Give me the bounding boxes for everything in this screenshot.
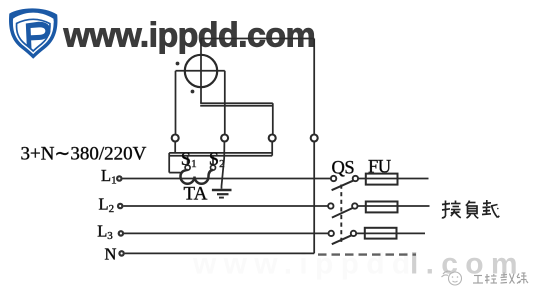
svg-text:TA: TA <box>184 184 208 205</box>
svg-text:L3: L3 <box>97 222 113 242</box>
svg-text:QS: QS <box>332 159 355 179</box>
svg-text:www.ippdd.com: www.ippdd.com <box>63 17 316 55</box>
svg-text:N: N <box>105 245 117 264</box>
svg-text:l.com: l.com <box>410 248 525 281</box>
svg-text:www.ippdd: www.ippdd <box>192 248 418 281</box>
svg-text:FU: FU <box>368 158 391 178</box>
svg-text:L2: L2 <box>99 194 115 214</box>
svg-text:L1: L1 <box>101 166 117 186</box>
svg-text:3+N∼380/220V: 3+N∼380/220V <box>21 143 147 164</box>
